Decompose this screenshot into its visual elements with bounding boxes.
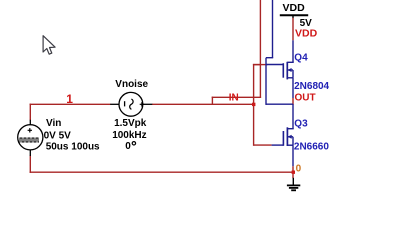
Q3 gate bar: [282, 131, 284, 146]
svg-text:OUT: OUT: [295, 92, 316, 103]
navy wire jog horizontal: [266, 57, 273, 59]
wire OUT red segment: [292, 98, 294, 105]
junction dot ground: [292, 171, 295, 174]
navy wire horizontal to OUT column: [266, 103, 293, 105]
ground bar 3: [291, 189, 296, 191]
source Vnoise left pin: [110, 103, 119, 105]
svg-text:2N6660: 2N6660: [294, 142, 329, 153]
IN loop top wire: [212, 96, 261, 98]
svg-text:1: 1: [66, 92, 73, 106]
wire IN vertical from top edge: [259, 0, 261, 98]
navy wire vertical x266: [265, 58, 267, 105]
wire Vnoise to IN junction: [152, 103, 254, 105]
wire Q3 source red segment: [292, 166, 294, 178]
Q4 body-source link: [292, 70, 294, 78]
svg-text:0: 0: [125, 141, 131, 152]
Q4 channel bar: [286, 62, 288, 80]
wire IN vertical to Q3 gate row: [253, 64, 255, 146]
navy wire OUT column down to Q3: [292, 104, 294, 129]
Q3 source pin navy: [292, 145, 294, 166]
Vnoise minus tick: [124, 101, 126, 106]
Q3 drain stub: [287, 128, 293, 130]
svg-text:VDD: VDD: [295, 28, 318, 40]
svg-text:50us 100us: 50us 100us: [46, 142, 100, 153]
Q3 bottom stub: [287, 144, 293, 146]
wire Vin bottom vertical: [29, 156, 31, 173]
wire bottom horizontal to ground junction: [30, 171, 294, 173]
Vnoise sine squiggle: [130, 99, 133, 109]
source Vnoise circle: [119, 92, 143, 116]
ground bar 2: [289, 187, 298, 189]
junction dot IN: [252, 103, 255, 106]
Vin plus sign: [28, 128, 32, 132]
Q3 gate lead navy part: [272, 144, 284, 146]
Q4 top stub: [287, 61, 293, 63]
svg-text:2N6804: 2N6804: [294, 81, 329, 92]
svg-text:0: 0: [296, 164, 302, 175]
wire link horizontal y64.6: [253, 64, 261, 66]
wire Vin top vertical: [29, 104, 31, 121]
VDD rail bar: [280, 14, 308, 16]
svg-text:IN: IN: [229, 93, 239, 104]
wire VDD red segment: [292, 18, 294, 41]
svg-text:Vin: Vin: [46, 118, 61, 129]
mouse cursor: [43, 36, 55, 55]
wire to Q3 gate (red part): [254, 144, 272, 146]
wire node 1 horizontal (Vin to Vnoise): [30, 103, 111, 105]
svg-text:100kHz: 100kHz: [112, 130, 146, 141]
svg-text:0V 5V: 0V 5V: [44, 130, 72, 141]
ground stub: [292, 178, 294, 186]
IN loop left tick: [211, 97, 213, 105]
Q4 bottom stub: [287, 77, 293, 79]
Q3 channel bar: [286, 127, 288, 146]
VDD stub black: [292, 15, 294, 18]
Q4 gate bar: [282, 63, 284, 77]
Q3 body arrow: [288, 135, 292, 139]
source Vin circle: [18, 125, 43, 150]
Q4 gate lead navy part: [266, 64, 283, 66]
source Vin pin bottom: [29, 150, 31, 156]
svg-text:VDD: VDD: [283, 2, 306, 14]
navy wire gates vertical from top: [272, 0, 274, 58]
svg-text:1.5Vpk: 1.5Vpk: [114, 118, 147, 129]
Q3 body-source link: [292, 137, 294, 145]
svg-text:Q4: Q4: [294, 52, 308, 63]
Q3 middle stub: [287, 136, 293, 138]
svg-text:Q3: Q3: [294, 119, 308, 130]
Q4 drain pin navy: [292, 40, 294, 62]
Q4 body arrow: [287, 68, 291, 72]
svg-text:Vnoise: Vnoise: [115, 79, 148, 90]
Q4 source pin navy: [292, 78, 294, 98]
source Vin pin top: [29, 120, 31, 125]
ground bar 1: [287, 184, 300, 186]
Vin pulse waveform glyph: [19, 138, 39, 142]
source Vnoise right pin: [143, 103, 153, 105]
wire to Q4 gate (red part): [254, 64, 268, 66]
Q4 middle stub: [287, 69, 293, 71]
Vnoise plus sign: [140, 102, 145, 107]
